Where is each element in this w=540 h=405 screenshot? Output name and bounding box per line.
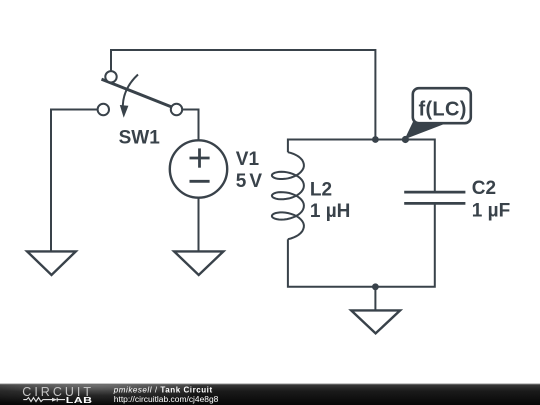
svg-text:1 µH: 1 µH [310,201,351,222]
svg-text:L2: L2 [310,179,332,200]
svg-text:C2: C2 [472,178,496,199]
svg-text:pmikesell / Tank Circuit: pmikesell / Tank Circuit [113,385,213,394]
svg-text:LAB: LAB [66,396,93,405]
svg-text:SW1: SW1 [119,128,161,149]
svg-text:http://circuitlab.com/cj4e8g8: http://circuitlab.com/cj4e8g8 [114,394,219,404]
svg-text:5V: 5V [236,171,263,192]
svg-text:f(LC): f(LC) [419,99,467,121]
svg-text:1 µF: 1 µF [472,200,510,221]
svg-text:V1: V1 [236,149,260,170]
